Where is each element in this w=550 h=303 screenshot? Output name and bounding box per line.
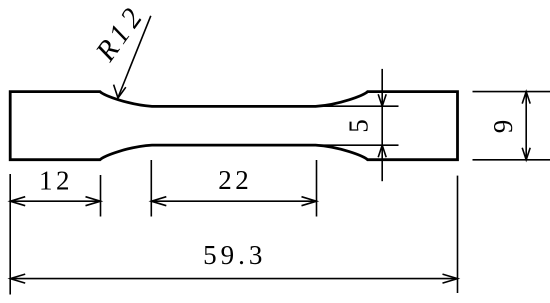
svg-text:59.3: 59.3 [203, 240, 266, 270]
svg-text:R12: R12 [89, 3, 149, 68]
svg-text:22: 22 [218, 165, 252, 195]
svg-text:12: 12 [39, 165, 73, 195]
svg-text:9: 9 [488, 120, 518, 134]
svg-text:5: 5 [344, 119, 374, 133]
